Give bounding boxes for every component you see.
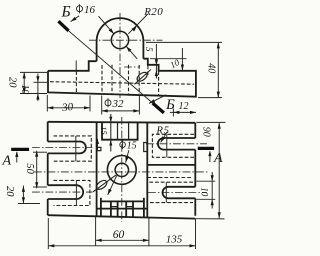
notch right block xyxy=(144,143,148,152)
hidden step continuation right xyxy=(147,66,149,78)
slot lower-left solid U xyxy=(48,180,84,205)
svg-text:30: 30 xyxy=(61,101,75,114)
dimension Ф32 xyxy=(102,96,140,115)
svg-text:Б: Б xyxy=(61,3,71,20)
centerline slot upper-right xyxy=(146,143,207,145)
centerline slot upper-left xyxy=(32,147,93,149)
boss circle Ф32 xyxy=(107,156,136,185)
section trace Б-Б thin diagonal line xyxy=(69,31,153,103)
counterbore lower-right hidden xyxy=(148,182,194,202)
section trace Б-Б thick bar top-left xyxy=(58,21,68,31)
counterbore lower-left hidden xyxy=(54,180,90,205)
dimension 50 left xyxy=(24,151,47,188)
outer outline top edge xyxy=(48,122,196,123)
hidden boss edge left Ф32 xyxy=(101,65,103,94)
counterbore upper-left hidden xyxy=(54,136,92,161)
hole circle Ф15 xyxy=(115,163,128,176)
dimension 135 bottom xyxy=(48,218,195,249)
dimension 30 bottom left of front view xyxy=(47,95,90,114)
svg-text:10: 10 xyxy=(199,187,209,197)
leader tail SW with arrow xyxy=(108,175,117,195)
slot lower-right solid U xyxy=(163,182,196,202)
svg-text:A: A xyxy=(2,154,12,169)
dimension 10 right step xyxy=(150,48,187,71)
hidden hole edges top strip xyxy=(118,122,129,139)
section arrow Б bottom xyxy=(149,95,166,104)
section trace Б-Б thick bar bottom-right xyxy=(153,103,164,113)
hidden hole edge right xyxy=(128,65,130,94)
bottom counterbore H right xyxy=(126,201,133,217)
center block right inner edge xyxy=(143,198,145,218)
hidden line mid base xyxy=(50,82,194,85)
svg-text:20: 20 xyxy=(6,77,17,88)
hidden slot edge left xyxy=(75,71,77,93)
svg-text:32: 32 xyxy=(112,98,125,110)
pencil mark loop on right step xyxy=(134,70,151,85)
dimension 10 left xyxy=(19,74,48,102)
svg-text:12: 12 xyxy=(179,101,189,112)
center block left inner edge xyxy=(100,198,102,217)
slot upper-left solid U xyxy=(48,136,86,161)
svg-text:50: 50 xyxy=(24,163,35,174)
centerline horizontal through Ф16 xyxy=(89,39,163,41)
left edge segments xyxy=(47,122,49,216)
recess edge right hidden xyxy=(147,177,192,179)
hidden hole edge left xyxy=(111,65,113,94)
center block right edge xyxy=(146,123,148,218)
slot upper-right solid U xyxy=(158,134,195,157)
svg-text:5: 5 xyxy=(144,47,154,52)
svg-text:15: 15 xyxy=(127,141,137,152)
dimension 15 top strip xyxy=(99,114,112,152)
block bottom shelf lower edge xyxy=(97,208,148,210)
svg-text:40: 40 xyxy=(205,63,216,73)
base plate outline xyxy=(48,59,196,97)
svg-text:A: A xyxy=(213,151,223,166)
dimension 5 right step xyxy=(144,42,222,78)
extension of bottom edge right xyxy=(195,218,224,220)
hidden step edge right xyxy=(158,71,160,95)
notch left block xyxy=(97,147,101,150)
svg-text:15: 15 xyxy=(99,126,109,135)
svg-text:135: 135 xyxy=(166,234,183,246)
dimension 90 right xyxy=(197,122,226,218)
svg-text:90: 90 xyxy=(200,127,211,137)
outer outline bottom edge xyxy=(48,215,196,218)
centerline vertical bottom view xyxy=(121,117,123,222)
dimension Ф16 leader xyxy=(99,16,138,59)
block bottom shelf upper edge xyxy=(101,200,144,202)
recess edge right solid xyxy=(147,164,195,166)
hidden boss edge right Ф32 xyxy=(138,65,140,94)
bottom counterbore H left xyxy=(111,201,118,216)
dimension 20 left xyxy=(6,72,47,93)
centerline horizontal bottom view xyxy=(34,171,208,173)
counterbore upper-right hidden xyxy=(152,134,194,157)
hole Ф16 circle xyxy=(111,31,128,48)
dimension R20 leader xyxy=(128,14,148,34)
center block left edge xyxy=(96,122,98,217)
dimension 12 right of front view xyxy=(170,101,196,117)
dimension 10 right xyxy=(196,172,215,209)
svg-text:60: 60 xyxy=(113,229,125,241)
thin mark above base left xyxy=(75,61,77,71)
right edge segments xyxy=(194,123,196,216)
label Ф16 xyxy=(77,4,96,16)
section marker A right xyxy=(198,148,223,165)
svg-text:R20: R20 xyxy=(143,6,163,18)
svg-text:20: 20 xyxy=(4,186,15,197)
svg-text:R5: R5 xyxy=(156,126,170,137)
lug (rounded boss with R20 arc) xyxy=(97,18,144,61)
svg-text:16: 16 xyxy=(84,4,96,16)
centerline slot lower-left xyxy=(32,191,93,193)
svg-text:10: 10 xyxy=(19,84,30,94)
centerline slot lower-right xyxy=(148,192,207,194)
pencil mark loop bottom view xyxy=(93,175,116,192)
short centerline tick at boss xyxy=(124,66,140,68)
label R5 with leader xyxy=(156,126,170,143)
boss rectangle top (Ф32 projection) xyxy=(102,122,138,140)
dimension 20 left xyxy=(4,186,40,204)
small arrow on block edge xyxy=(96,139,99,151)
dimension 60 bottom xyxy=(96,217,149,246)
centerline vertical front view xyxy=(119,13,121,98)
dimension 40 right xyxy=(198,42,222,97)
section marker A left xyxy=(2,149,30,168)
label Ф15 with leader xyxy=(120,141,137,163)
section arrow Б top xyxy=(71,16,80,22)
